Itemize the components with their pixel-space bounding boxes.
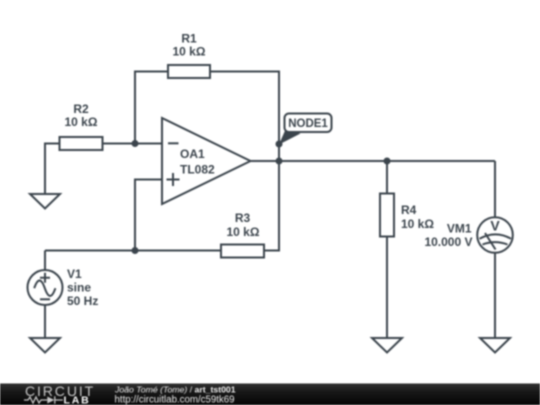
ground below VM1 xyxy=(480,338,510,353)
resistor R4 xyxy=(380,194,434,237)
svg-text:V: V xyxy=(490,218,500,234)
wire output xyxy=(251,160,496,162)
wire bottom from V1 to R3 xyxy=(45,250,221,252)
svg-text:http://circuitlab.com/c59tk69: http://circuitlab.com/c59tk69 xyxy=(115,394,235,405)
wire feedback left vertical xyxy=(135,72,168,144)
ground below R4 xyxy=(372,338,402,353)
svg-text:TL082: TL082 xyxy=(180,163,215,177)
svg-text:João Tomé (Tome) / art_tst001: João Tomé (Tome) / art_tst001 xyxy=(114,384,236,394)
wire VM1 bottom xyxy=(494,253,496,338)
svg-text:10 kΩ: 10 kΩ xyxy=(227,225,260,239)
wire R2 right to op-amp inverting input xyxy=(103,143,163,145)
wire non-inverting input down xyxy=(135,180,162,251)
node R4 junction xyxy=(384,158,391,165)
svg-text:OA1: OA1 xyxy=(180,147,205,161)
svg-text:10 kΩ: 10 kΩ xyxy=(173,45,206,59)
svg-text:10 kΩ: 10 kΩ xyxy=(65,115,98,129)
node junction inverting input xyxy=(132,140,139,147)
svg-text:sine: sine xyxy=(67,281,91,295)
op-amp OA1 xyxy=(162,118,251,204)
svg-text:LAB: LAB xyxy=(64,394,91,405)
svg-text:10 kΩ: 10 kΩ xyxy=(401,217,434,231)
wire feedback right down to output node xyxy=(210,72,279,162)
resistor R3 xyxy=(221,211,264,258)
svg-text:R4: R4 xyxy=(401,203,417,217)
ground below V1 xyxy=(30,338,60,353)
logo CircuitLab xyxy=(24,383,95,405)
svg-text:R2: R2 xyxy=(73,102,89,116)
svg-text:10.000 V: 10.000 V xyxy=(424,235,472,249)
svg-text:V1: V1 xyxy=(67,267,82,281)
wire R4 top xyxy=(386,161,388,194)
footer author text xyxy=(114,384,236,405)
resistor R1 xyxy=(168,32,210,79)
wire R4 bottom xyxy=(386,237,388,339)
voltage source V1 xyxy=(28,251,99,339)
footer bar xyxy=(0,384,540,405)
node junction bottom xyxy=(132,247,139,254)
wire R3 right up to output node xyxy=(264,161,279,251)
node NODE1 xyxy=(276,114,332,148)
svg-text:NODE1: NODE1 xyxy=(288,118,328,130)
svg-text:50 Hz: 50 Hz xyxy=(67,294,98,308)
svg-text:VM1: VM1 xyxy=(447,222,472,236)
resistor R2 xyxy=(60,102,103,150)
wire VM1 top xyxy=(494,161,496,217)
ground below R2 xyxy=(30,194,60,209)
wire R2 left to ground xyxy=(45,144,60,195)
svg-text:R3: R3 xyxy=(235,211,251,225)
svg-text:R1: R1 xyxy=(181,32,197,46)
voltmeter VM1 xyxy=(424,217,512,253)
node output junction xyxy=(276,158,283,165)
